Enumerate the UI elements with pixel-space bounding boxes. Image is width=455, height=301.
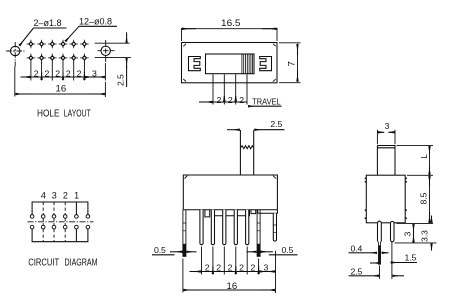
dimension 8.5 (407, 174, 433, 176)
svg-text:3.3: 3.3 (420, 230, 430, 242)
leader to large hole (20, 28, 34, 46)
side tabs (365, 178, 407, 219)
svg-text:3: 3 (385, 121, 390, 131)
svg-text:2: 2 (55, 68, 60, 78)
large hole right centerlines (98, 40, 115, 62)
small holes row 2 (12-dia0.8) (27, 54, 89, 63)
chain dimension 2x5 + 3 : extension ticks (31, 62, 106, 81)
svg-text:1.5: 1.5 (405, 253, 417, 263)
inter-row dashes (43, 219, 65, 226)
svg-text:2: 2 (228, 95, 233, 105)
row 1 contact circles (30, 215, 89, 219)
TRAVEL label with leader (248, 105, 281, 107)
dashed stubs bottom (43, 229, 65, 242)
dimension 2.5 : extension lines (95, 43, 131, 57)
svg-text:2: 2 (228, 263, 233, 273)
actuator stem (240, 130, 253, 175)
right clip contact (260, 57, 272, 71)
svg-text:2: 2 (45, 68, 50, 78)
svg-text:2.5: 2.5 (116, 74, 126, 86)
right block (258, 210, 278, 214)
dimension 3 pin (413, 223, 415, 243)
dimension 3 top extension (377, 130, 395, 145)
dimension 2.5 (351, 266, 363, 276)
travel dimension extension lines (213, 74, 247, 104)
svg-text:3: 3 (403, 232, 413, 237)
dimension 1.5 (370, 262, 380, 264)
svg-text:2: 2 (251, 263, 256, 273)
right short pin (273, 213, 276, 241)
small tab right (251, 210, 256, 214)
chain dim extension lines (202, 247, 276, 294)
large hole left centerlines (6, 50, 24, 52)
dimension 0.4 (351, 243, 363, 253)
svg-text:3: 3 (52, 191, 57, 201)
top stub col5 (75, 202, 77, 215)
svg-text:0.4: 0.4 (351, 243, 363, 253)
chain dimension line (190, 271, 276, 273)
CIRCUIT DIAGRAM title (28, 258, 97, 269)
extension line body bottom (397, 222, 434, 224)
svg-text:8.5: 8.5 (419, 192, 429, 204)
svg-text:2: 2 (217, 95, 222, 105)
svg-text:16.5: 16.5 (221, 18, 241, 29)
svg-text:2: 2 (77, 68, 82, 78)
svg-text:16: 16 (227, 281, 238, 292)
travel dimension line (199, 101, 247, 103)
lug strip hatched (379, 242, 381, 265)
dimension 2.5 line (227, 129, 240, 131)
arrows for 3 segment (85, 76, 95, 78)
svg-text:LAYOUT: LAYOUT (64, 109, 91, 120)
bottom stub col5 (75, 229, 77, 242)
extension line pin bottom (395, 242, 437, 244)
slider knob (206, 54, 255, 74)
large hole left (2-dia1.8) (11, 46, 20, 55)
dimension 0.5 left (154, 245, 166, 255)
svg-text:4: 4 (41, 191, 46, 201)
svg-text:2: 2 (239, 263, 244, 273)
center block (212, 210, 250, 216)
small holes row 1 (12-dia0.8) (27, 40, 89, 49)
leader to small hole (66, 26, 80, 41)
svg-text:3: 3 (92, 68, 97, 78)
pin lug capsule (left) (378, 221, 382, 241)
svg-text:HOLE: HOLE (37, 109, 60, 120)
actuator break squiggle (240, 146, 253, 149)
pin number labels 4 3 2 1 (41, 191, 79, 201)
dimension 16 line (15, 93, 106, 95)
label 12-dia0.8 (79, 17, 112, 27)
dimension 16 bottom (182, 259, 184, 293)
HOLE LAYOUT title (37, 109, 91, 120)
top corner marks (185, 176, 277, 179)
dashed stubs top (43, 202, 65, 215)
svg-text:2.5: 2.5 (270, 119, 282, 129)
svg-text:2–ø1.8: 2–ø1.8 (34, 18, 62, 28)
down arrows on ticks (41, 72, 43, 80)
svg-text:12–ø0.8: 12–ø0.8 (79, 17, 112, 27)
svg-text:0.5: 0.5 (154, 245, 166, 255)
svg-text:7: 7 (287, 61, 298, 66)
svg-text:2: 2 (63, 191, 68, 201)
dimension 2.5 vertical line with outside arrows (126, 32, 128, 43)
left mounting lug hatched (183, 210, 186, 257)
right mounting lug hatched (257, 210, 260, 257)
svg-text:2: 2 (34, 68, 39, 78)
svg-text:2: 2 (239, 95, 244, 105)
svg-text:2: 2 (216, 263, 221, 273)
dimension 16 : extension lines (15, 67, 106, 98)
bottom edge (183, 209, 277, 211)
svg-text:DIAGRAM: DIAGRAM (65, 258, 98, 269)
dimension L (397, 145, 434, 147)
left clip contact (189, 57, 201, 71)
dimension 7 extension lines (279, 43, 301, 83)
dimension 0.5 right (282, 245, 294, 255)
bottom bus wire (32, 229, 88, 242)
dimension 16.5 line (182, 28, 278, 30)
svg-text:1: 1 (74, 191, 79, 201)
actuator (377, 146, 395, 176)
svg-text:TRAVEL: TRAVEL (252, 96, 281, 106)
extension lines for 2.5 (380, 242, 392, 279)
dimension 16.5 extension lines (182, 28, 278, 41)
svg-text:2: 2 (66, 68, 71, 78)
dimension labels 2 2 2 2 2 3 (34, 68, 97, 78)
chain dimension line (21, 76, 106, 78)
row 2 contact circles (30, 225, 89, 229)
pin capsule (right) (391, 221, 395, 241)
left outside arrow (21, 76, 31, 78)
svg-text:2.5: 2.5 (351, 266, 363, 276)
svg-text:2: 2 (205, 263, 210, 273)
svg-text:3: 3 (264, 262, 269, 272)
top bus wire (32, 202, 88, 215)
large hole right (2-dia1.8) (101, 46, 110, 55)
svg-text:CIRCUIT: CIRCUIT (28, 258, 59, 269)
svg-text:16: 16 (56, 84, 67, 95)
body outline (366, 175, 405, 223)
label 2-dia1.8 (34, 18, 62, 28)
dimension 7 line (297, 44, 299, 82)
small tab left (205, 210, 210, 217)
corner marks (183, 44, 275, 82)
slider serrations (242, 54, 253, 74)
body outline (182, 43, 278, 83)
svg-text:L: L (419, 154, 429, 159)
rotated 2.5 label (116, 74, 126, 86)
svg-text:0.5: 0.5 (282, 245, 294, 255)
dimension 3.3 (431, 216, 433, 223)
pins 1-5 (200, 210, 203, 245)
body outline (183, 175, 277, 210)
center dash-dot line (28, 221, 94, 223)
